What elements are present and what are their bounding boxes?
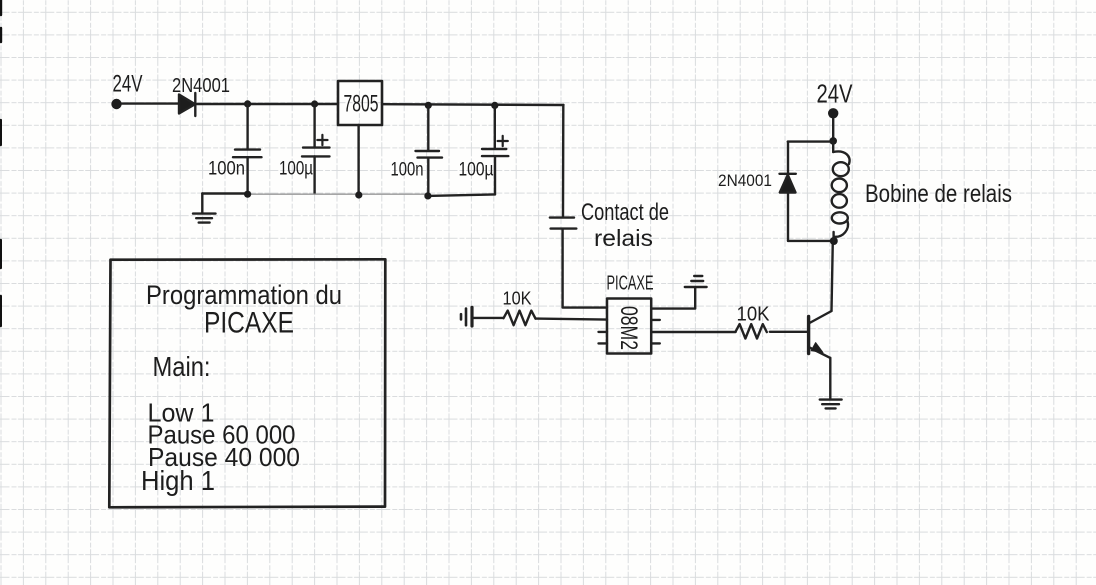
node junction C4 top — [491, 102, 498, 109]
resistor R2 10K — [736, 324, 767, 338]
regulator U1 7805 — [338, 81, 382, 125]
wire 24V down — [832, 119, 834, 141]
diode D1 2N4001 — [179, 93, 195, 116]
svg-text:24V: 24V — [817, 79, 854, 109]
PICAXE left pin stubs — [599, 332, 608, 344]
node junction C1 top — [244, 100, 251, 107]
capacitor C2 100u — [302, 104, 330, 194]
svg-text:Main:: Main: — [153, 351, 211, 382]
svg-text:Programmation du: Programmation du — [146, 280, 342, 310]
wire PICAXE output to resistor R2 — [651, 331, 735, 333]
capacitor C3 100n — [416, 105, 443, 195]
wire 7805 output rail — [382, 103, 564, 106]
transistor Q1 — [809, 311, 832, 358]
node junction C2 top — [311, 100, 318, 107]
svg-text:08M2: 08M2 — [615, 306, 642, 350]
ground symbol transistor — [820, 400, 842, 409]
programming jack — [461, 307, 472, 326]
ground symbol left — [193, 194, 216, 223]
wire collector to relay — [832, 241, 833, 311]
scan edge mark left — [0, 0, 2, 326]
node junction C1 bottom — [244, 191, 251, 198]
svg-text:100n: 100n — [391, 160, 424, 181]
node 24V relay dot — [828, 108, 838, 118]
wire diode branch lower — [787, 193, 789, 241]
svg-text:Contact de: Contact de — [581, 199, 669, 226]
wire relay bottom bar — [788, 240, 834, 242]
PICAXE chip U2 — [607, 299, 651, 354]
wire jack to resistor R1 — [474, 317, 504, 319]
wire 7805 ground pin — [357, 125, 359, 195]
svg-text:relais: relais — [594, 225, 653, 251]
wire R2 to transistor base — [770, 331, 807, 333]
wire emitter to ground — [829, 358, 831, 399]
PICAXE right pin stubs — [651, 320, 660, 344]
ground symbol PICAXE (inverted) — [685, 276, 707, 287]
wire R1 to PICAXE — [536, 319, 608, 320]
wire contact to PICAXE pin — [563, 229, 607, 308]
ground rail — [202, 194, 495, 196]
relay coil L1 — [832, 141, 850, 241]
svg-text:100µ: 100µ — [459, 160, 494, 181]
capacitor C4 100u — [482, 105, 508, 194]
svg-text:2N4001: 2N4001 — [718, 172, 772, 190]
capacitor C1 100n — [233, 104, 262, 194]
node junction C3 bottom — [424, 192, 431, 199]
svg-text:24V: 24V — [113, 71, 143, 98]
svg-text:PICAXE: PICAXE — [204, 307, 294, 340]
node junction 7805 gnd — [355, 191, 362, 198]
wire relay top bar — [788, 140, 833, 142]
diode D2 2N4001 flyback — [780, 174, 796, 193]
relay contact plates — [550, 218, 576, 229]
svg-text:100n: 100n — [208, 159, 245, 180]
svg-text:PICAXE: PICAXE — [607, 273, 654, 295]
svg-text:10K: 10K — [503, 289, 532, 309]
svg-text:Bobine de relais: Bobine de relais — [865, 180, 1012, 208]
wire diode to 7805 — [196, 103, 339, 105]
node junction relay bottom — [830, 237, 838, 245]
svg-text:7805: 7805 — [344, 91, 379, 118]
node junction C3 top — [425, 102, 432, 109]
wire diode branch upper — [787, 142, 789, 174]
node junction relay top — [829, 137, 837, 145]
svg-text:10K: 10K — [737, 304, 771, 326]
wire input to diode — [122, 102, 180, 104]
wire rail corner down to relay contact — [562, 105, 565, 217]
programming notes box — [109, 259, 385, 507]
svg-text:100µ: 100µ — [279, 159, 313, 180]
resistor R1 10K — [504, 311, 536, 326]
svg-text:2N4001: 2N4001 — [172, 75, 230, 97]
wire PICAXE to ground right — [651, 287, 695, 308]
svg-text:High 1: High 1 — [141, 465, 215, 496]
node 24V input dot — [111, 99, 121, 109]
